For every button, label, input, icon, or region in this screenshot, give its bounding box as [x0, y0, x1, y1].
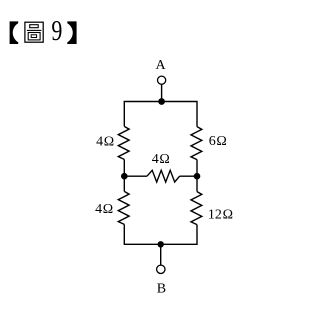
right lenticular bracket 】	[67, 21, 76, 44]
wire left mid	[123, 159, 125, 176]
resistor 6Ω upper-right	[191, 127, 202, 160]
svg-text:4Ω: 4Ω	[152, 152, 170, 167]
node B junction dot	[158, 241, 164, 247]
node junction dot right	[194, 173, 201, 180]
wire B stub	[160, 244, 162, 265]
terminal A circle	[158, 76, 166, 84]
svg-text:12Ω: 12Ω	[208, 208, 233, 223]
wire right mid	[196, 160, 198, 192]
svg-text:A: A	[156, 58, 167, 73]
svg-text:4Ω: 4Ω	[95, 202, 113, 217]
terminal B circle	[157, 265, 165, 273]
resistor 4Ω upper-left	[118, 126, 129, 159]
ideograph 圖	[25, 22, 43, 42]
wire bottom rail	[124, 224, 197, 244]
wire bridge left	[124, 175, 147, 177]
resistor 4Ω lower-left	[118, 191, 129, 224]
wire top rail	[124, 102, 197, 127]
wire A stub	[161, 85, 163, 102]
resistor 4Ω bridge	[147, 170, 180, 182]
svg-text:9: 9	[51, 16, 62, 47]
node A junction dot	[158, 98, 165, 105]
svg-text:B: B	[157, 281, 166, 296]
left lenticular bracket 【	[10, 21, 19, 44]
svg-text:6Ω: 6Ω	[209, 134, 227, 149]
title figure caption 【圖 9】	[10, 16, 77, 47]
node junction dot left	[121, 173, 128, 180]
resistor 12Ω lower-right	[191, 192, 202, 225]
svg-text:4Ω: 4Ω	[96, 135, 114, 150]
wire bridge right	[180, 175, 197, 177]
wire left lower stub	[123, 176, 125, 191]
